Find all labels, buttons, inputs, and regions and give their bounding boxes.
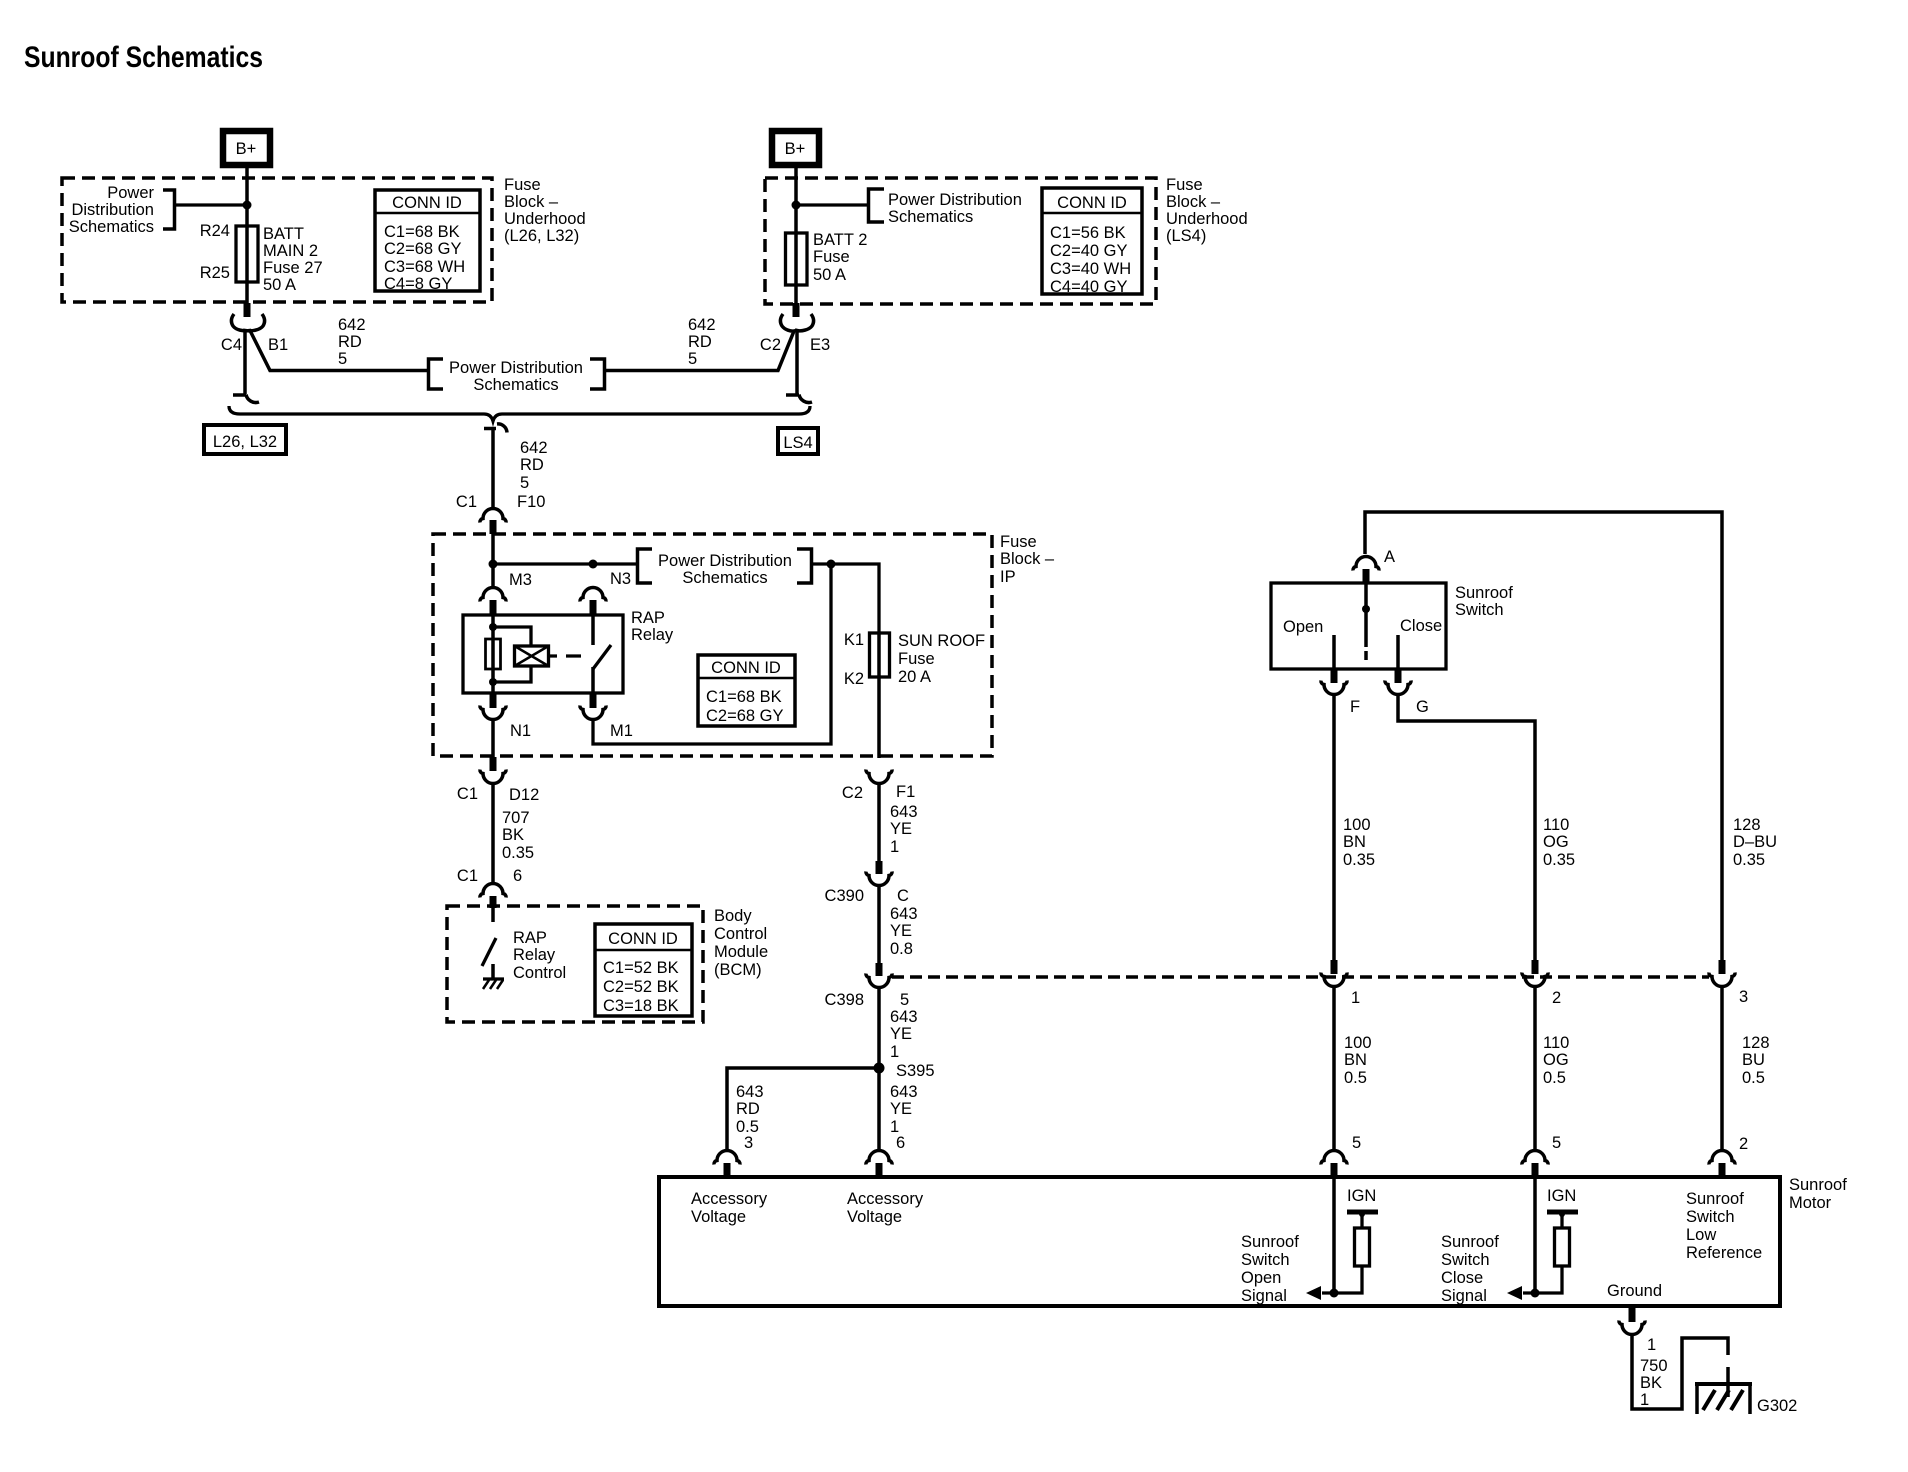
svg-text:RD: RD bbox=[520, 456, 544, 474]
svg-text:Close: Close bbox=[1441, 1269, 1483, 1287]
svg-text:1: 1 bbox=[1640, 1391, 1649, 1409]
svg-text:Switch: Switch bbox=[1686, 1208, 1735, 1226]
connector C1/D12 male stub bbox=[490, 757, 497, 771]
svg-text:6: 6 bbox=[513, 867, 522, 885]
svg-text:C3=18 BK: C3=18 BK bbox=[603, 997, 679, 1015]
svg-text:Accessory: Accessory bbox=[847, 1190, 924, 1208]
svg-text:M3: M3 bbox=[509, 571, 532, 589]
C398 harness dashed line bbox=[892, 975, 1709, 979]
svg-text:110: 110 bbox=[1543, 816, 1569, 834]
svg-text:643: 643 bbox=[736, 1083, 764, 1101]
svg-text:E3: E3 bbox=[810, 336, 830, 354]
label 128 D-BU 0.35 bbox=[1733, 816, 1777, 869]
svg-text:YE: YE bbox=[890, 820, 912, 838]
label SUN ROOF Fuse 20 A bbox=[898, 632, 985, 686]
svg-text:643: 643 bbox=[890, 905, 918, 923]
relay resistor bbox=[486, 639, 501, 669]
svg-text:BN: BN bbox=[1344, 1051, 1367, 1069]
junction open signal bbox=[1330, 1289, 1339, 1298]
label BATT 2 Fuse 50 A bbox=[813, 231, 867, 284]
svg-text:CONN ID: CONN ID bbox=[711, 659, 781, 677]
svg-text:Motor: Motor bbox=[1789, 1194, 1832, 1212]
sunroof switch box bbox=[1271, 583, 1446, 669]
svg-text:Fuse 27: Fuse 27 bbox=[263, 259, 323, 277]
svg-text:Sunroof: Sunroof bbox=[1441, 1233, 1499, 1251]
svg-text:YE: YE bbox=[890, 1025, 912, 1043]
svg-text:N1: N1 bbox=[510, 722, 531, 740]
svg-text:YE: YE bbox=[890, 1100, 912, 1118]
svg-text:(BCM): (BCM) bbox=[714, 961, 762, 979]
label Accessory Voltage (pin 3) bbox=[691, 1190, 768, 1226]
svg-text:Low: Low bbox=[1686, 1226, 1716, 1244]
connector C4/B1 double terminal with wire C4 down bbox=[245, 314, 265, 394]
connector C1/6 terminal bbox=[480, 884, 506, 898]
wire start below brace bbox=[484, 424, 507, 433]
connector C1/F10 terminal bbox=[480, 509, 506, 523]
svg-text:CONN ID: CONN ID bbox=[608, 930, 678, 948]
BCM switch to ground wire bbox=[491, 964, 495, 978]
relay actuator dashed link bbox=[549, 654, 582, 657]
label Fuse Block - Underhood (LS4) bbox=[1166, 176, 1248, 245]
label 750 BK 1 bbox=[1640, 1357, 1668, 1409]
connector A terminal bbox=[1353, 557, 1379, 571]
off-page reference bracket (left) bbox=[163, 190, 175, 229]
svg-text:K2: K2 bbox=[844, 670, 864, 688]
svg-text:3: 3 bbox=[744, 1134, 753, 1152]
svg-text:LS4: LS4 bbox=[783, 434, 812, 452]
svg-text:C2: C2 bbox=[842, 784, 863, 802]
label Power Distribution Schematics (right) bbox=[888, 191, 1022, 226]
svg-text:Distribution: Distribution bbox=[71, 201, 154, 219]
svg-text:1: 1 bbox=[890, 1043, 899, 1061]
junction N3 feed bbox=[589, 560, 598, 569]
svg-text:Power: Power bbox=[107, 184, 154, 202]
svg-text:Block –: Block – bbox=[504, 193, 559, 211]
label Fuse Block - IP bbox=[1000, 533, 1055, 586]
svg-text:Underhood: Underhood bbox=[1166, 210, 1248, 228]
wire 643 YE to C390 bbox=[877, 783, 881, 862]
svg-text:C4=40 GY: C4=40 GY bbox=[1050, 278, 1128, 296]
wire bracket to B+ feed bbox=[175, 203, 248, 206]
connector pin 3 male stub bbox=[1719, 960, 1726, 974]
svg-text:RAP: RAP bbox=[631, 609, 665, 627]
svg-text:Ground: Ground bbox=[1607, 1282, 1662, 1300]
wire M1 return to fuse feed bbox=[593, 564, 831, 744]
connector C2/F1 terminal bbox=[866, 770, 892, 784]
svg-text:5: 5 bbox=[1352, 1134, 1361, 1152]
svg-text:N3: N3 bbox=[610, 570, 631, 588]
label 110 OG 0.5 bbox=[1543, 1034, 1569, 1087]
connector A male stub bbox=[1363, 569, 1370, 583]
svg-text:0.5: 0.5 bbox=[1543, 1069, 1566, 1087]
svg-text:0.5: 0.5 bbox=[1742, 1069, 1765, 1087]
svg-text:(LS4): (LS4) bbox=[1166, 227, 1206, 245]
svg-text:B+: B+ bbox=[236, 140, 257, 158]
svg-text:C1=52 BK: C1=52 BK bbox=[603, 959, 679, 977]
connector N1 male stub bbox=[490, 694, 497, 708]
label 110 OG 0.35 bbox=[1543, 816, 1575, 869]
svg-text:Fuse: Fuse bbox=[504, 176, 541, 194]
BCM RAP relay control switch wire bbox=[491, 906, 495, 922]
connector C398 terminal bbox=[866, 974, 892, 988]
label RAP Relay Control bbox=[513, 929, 566, 982]
connector motor pin 6 male stub bbox=[876, 1163, 883, 1177]
label Power Distribution Schematics (left) bbox=[69, 184, 155, 236]
svg-text:F: F bbox=[1350, 698, 1360, 716]
svg-text:BN: BN bbox=[1343, 833, 1366, 851]
svg-text:750: 750 bbox=[1640, 1357, 1668, 1375]
svg-text:IGN: IGN bbox=[1547, 1187, 1576, 1205]
wire sunroof fuse to C2/F1 bbox=[877, 677, 881, 758]
connector F male stub bbox=[1331, 670, 1338, 683]
svg-text:Block –: Block – bbox=[1166, 193, 1221, 211]
svg-text:Sunroof: Sunroof bbox=[1686, 1190, 1744, 1208]
svg-text:0.35: 0.35 bbox=[1543, 851, 1575, 869]
arrow close signal bbox=[1507, 1286, 1522, 1300]
svg-text:C1=68 BK: C1=68 BK bbox=[706, 688, 782, 706]
junction M1 return bbox=[827, 560, 836, 569]
CONN ID table (right fuse block) bbox=[1042, 188, 1142, 296]
wire G to pin 2 bbox=[1398, 694, 1535, 961]
svg-text:Switch: Switch bbox=[1455, 601, 1504, 619]
connector G terminal bbox=[1385, 681, 1411, 695]
svg-text:C2=40 GY: C2=40 GY bbox=[1050, 242, 1128, 260]
resistor pull-up (open) bbox=[1360, 1212, 1363, 1228]
svg-text:IGN: IGN bbox=[1347, 1187, 1376, 1205]
connector motor pin 1 terminal bbox=[1619, 1321, 1645, 1335]
svg-text:R25: R25 bbox=[200, 264, 230, 282]
svg-text:F10: F10 bbox=[517, 493, 545, 511]
svg-text:L26, L32: L26, L32 bbox=[213, 433, 277, 451]
connector pin 1 terminal bbox=[1321, 973, 1347, 987]
wire bracket to sunroof fuse bbox=[812, 564, 880, 633]
svg-text:1: 1 bbox=[1647, 1336, 1656, 1354]
svg-text:707: 707 bbox=[502, 809, 530, 827]
svg-text:642: 642 bbox=[520, 439, 548, 457]
svg-text:642: 642 bbox=[688, 316, 716, 334]
wire end E3 bbox=[786, 395, 812, 403]
label 100 BN 0.35 bbox=[1343, 816, 1375, 869]
arrow open signal bbox=[1306, 1286, 1321, 1300]
svg-text:Fuse: Fuse bbox=[898, 650, 935, 668]
net box LS4 bbox=[778, 428, 818, 454]
net box L26, L32 bbox=[204, 425, 286, 454]
svg-text:Sunroof: Sunroof bbox=[1241, 1233, 1299, 1251]
label 100 BN 0.5 bbox=[1344, 1034, 1372, 1087]
wire ground 750 BK to G302 bbox=[1632, 1334, 1728, 1409]
connector M1 male stub bbox=[590, 694, 597, 708]
connector C1/6 male stub bbox=[490, 896, 497, 908]
switch common wire bbox=[1364, 583, 1368, 647]
svg-text:0.35: 0.35 bbox=[1733, 851, 1765, 869]
label 643 YE 1 bbox=[890, 803, 918, 856]
svg-text:20 A: 20 A bbox=[898, 668, 931, 686]
wire B+ to BATT 2 fuse bbox=[794, 168, 798, 317]
svg-text:5: 5 bbox=[688, 350, 697, 368]
svg-text:Relay: Relay bbox=[631, 626, 674, 644]
svg-text:C1: C1 bbox=[457, 867, 478, 885]
svg-text:B+: B+ bbox=[785, 140, 806, 158]
connector M1 terminal bbox=[580, 706, 606, 720]
connector pin 2 terminal bbox=[1522, 973, 1548, 987]
svg-text:BK: BK bbox=[502, 826, 524, 844]
svg-text:C3=68 WH: C3=68 WH bbox=[384, 258, 465, 276]
off-page reference bracket pair Power Distribution Schematics (IP) bbox=[638, 549, 653, 583]
svg-text:Open: Open bbox=[1241, 1269, 1281, 1287]
svg-text:Sunroof Schematics: Sunroof Schematics bbox=[24, 41, 263, 74]
svg-text:Power Distribution: Power Distribution bbox=[449, 359, 583, 377]
label Sunroof Switch bbox=[1455, 584, 1513, 619]
svg-text:K1: K1 bbox=[844, 631, 864, 649]
svg-text:Sunroof: Sunroof bbox=[1789, 1176, 1847, 1194]
connector F terminal bbox=[1321, 681, 1347, 695]
wire S395 to pin 3 bbox=[727, 1068, 879, 1150]
motor close signal wire bbox=[1533, 1177, 1537, 1293]
CONN ID table (BCM) bbox=[595, 924, 692, 1016]
wire 707 BK to BCM bbox=[491, 783, 495, 883]
svg-text:C2: C2 bbox=[760, 336, 781, 354]
label Fuse Block - Underhood (L26, L32) bbox=[504, 176, 586, 245]
wire sunroof switch feed (top run) bbox=[1365, 512, 1722, 960]
junction coil bottom bbox=[489, 678, 497, 686]
svg-text:Reference: Reference bbox=[1686, 1244, 1762, 1262]
fuse SUN ROOF 20A bbox=[870, 633, 890, 677]
RAP relay box bbox=[463, 615, 623, 693]
svg-text:Switch: Switch bbox=[1241, 1251, 1290, 1269]
svg-text:C1: C1 bbox=[457, 785, 478, 803]
resistor pull-up (close) bbox=[1560, 1212, 1563, 1228]
switch open contact bbox=[1332, 635, 1336, 669]
svg-text:C1: C1 bbox=[456, 493, 477, 511]
CONN ID table (IP fuse block) bbox=[698, 655, 795, 726]
label 642 RD 5 (right) bbox=[688, 316, 716, 368]
svg-text:BK: BK bbox=[1640, 1374, 1662, 1392]
connector motor pin 5 male stub (left) bbox=[1331, 1163, 1338, 1177]
connector motor pin 3 terminal bbox=[714, 1151, 740, 1165]
relay switch contact wire bottom bbox=[591, 667, 595, 693]
svg-text:643: 643 bbox=[890, 803, 918, 821]
connector motor pin 2 terminal bbox=[1709, 1151, 1735, 1165]
switch actuator dash bbox=[1364, 651, 1368, 660]
junction close signal bbox=[1531, 1289, 1540, 1298]
svg-text:642: 642 bbox=[338, 316, 366, 334]
svg-text:Fuse: Fuse bbox=[1000, 533, 1037, 551]
svg-text:D12: D12 bbox=[509, 786, 539, 804]
wire B+ to fuse 27 bbox=[245, 168, 249, 317]
svg-text:BATT: BATT bbox=[263, 225, 304, 243]
svg-text:5: 5 bbox=[900, 991, 909, 1009]
connector motor pin 5 terminal (right) bbox=[1522, 1151, 1548, 1165]
CONN ID table (left fuse block) bbox=[375, 190, 480, 293]
svg-text:Fuse: Fuse bbox=[1166, 176, 1203, 194]
svg-text:5: 5 bbox=[520, 474, 529, 492]
relay coil branch wire bbox=[491, 615, 495, 693]
svg-text:OG: OG bbox=[1543, 1051, 1569, 1069]
svg-text:CONN ID: CONN ID bbox=[392, 194, 462, 212]
svg-text:RD: RD bbox=[688, 333, 712, 351]
wire end C4 bbox=[233, 395, 259, 403]
junction switch common bbox=[1362, 605, 1370, 613]
label 128 BU 0.5 bbox=[1742, 1034, 1770, 1087]
svg-text:G302: G302 bbox=[1757, 1397, 1797, 1415]
motor open signal wire bbox=[1332, 1177, 1336, 1293]
connector C4/B1 male stub bbox=[244, 303, 251, 317]
relay switch contact wire top bbox=[591, 615, 595, 645]
label BATT MAIN 2 Fuse 27 50 A bbox=[263, 225, 323, 294]
connector pin 2 male stub bbox=[1532, 960, 1539, 974]
svg-text:Accessory: Accessory bbox=[691, 1190, 768, 1208]
connector C2/E3 male stub bbox=[793, 303, 800, 317]
junction coil top bbox=[489, 623, 497, 631]
svg-text:643: 643 bbox=[890, 1008, 918, 1026]
BCM internal ground bbox=[483, 979, 504, 989]
svg-text:Schematics: Schematics bbox=[888, 208, 973, 226]
BCM switch blade bbox=[482, 938, 496, 966]
wire C398 to S395 bbox=[877, 987, 881, 1150]
wire pin 3 to motor pin 2 bbox=[1720, 986, 1724, 1150]
svg-text:Power Distribution: Power Distribution bbox=[888, 191, 1022, 209]
svg-text:Close: Close bbox=[1400, 617, 1442, 635]
wire bus to bracket bbox=[493, 562, 637, 565]
svg-text:CONN ID: CONN ID bbox=[1057, 194, 1127, 212]
connector motor pin 5 terminal (left) bbox=[1321, 1151, 1347, 1165]
sunroof motor box bbox=[659, 1177, 1780, 1306]
fuse BATT 2 50A bbox=[786, 233, 808, 285]
connector motor pin 6 terminal bbox=[866, 1151, 892, 1165]
label Sunroof Motor bbox=[1789, 1176, 1847, 1212]
label Body Control Module (BCM) bbox=[714, 907, 768, 979]
svg-text:Power Distribution: Power Distribution bbox=[658, 552, 792, 570]
connector G male stub bbox=[1395, 670, 1402, 683]
switch close contact bbox=[1396, 635, 1400, 669]
svg-text:YE: YE bbox=[890, 922, 912, 940]
svg-text:Switch: Switch bbox=[1441, 1251, 1490, 1269]
power symbol B+ (right) bbox=[772, 131, 819, 165]
relay switch blade bbox=[593, 645, 611, 669]
svg-text:128: 128 bbox=[1733, 816, 1761, 834]
fuse block underhood L26,L32 dashed box bbox=[62, 178, 492, 302]
svg-text:C2=68 GY: C2=68 GY bbox=[706, 707, 784, 725]
svg-text:0.5: 0.5 bbox=[1344, 1069, 1367, 1087]
svg-text:50 A: 50 A bbox=[263, 276, 296, 294]
label Sunroof Switch Open Signal bbox=[1241, 1233, 1299, 1305]
connector C390 male stub bbox=[876, 861, 883, 874]
svg-text:Control: Control bbox=[714, 925, 767, 943]
svg-text:Relay: Relay bbox=[513, 946, 556, 964]
ground G302 bbox=[1695, 1384, 1752, 1414]
relay coil symbol bbox=[515, 646, 549, 666]
svg-text:110: 110 bbox=[1543, 1034, 1569, 1052]
svg-text:Voltage: Voltage bbox=[847, 1208, 902, 1226]
wire junction to bracket (right) bbox=[796, 203, 868, 206]
svg-text:C4=8 GY: C4=8 GY bbox=[384, 275, 452, 293]
connector C1/D12 terminal bbox=[480, 770, 506, 784]
svg-text:6: 6 bbox=[896, 1134, 905, 1152]
label 643 YE 1 bbox=[890, 1083, 918, 1136]
label 707 BK 0.35 bbox=[502, 809, 534, 862]
label 643 YE 1 bbox=[890, 1008, 918, 1061]
svg-text:C390: C390 bbox=[825, 887, 864, 905]
fuse BATT MAIN 2 Fuse 27 50A bbox=[236, 226, 258, 282]
connector C398 male stub bbox=[876, 963, 883, 976]
wire F10 to M3 bbox=[491, 534, 495, 586]
wire F to pin 1 bbox=[1332, 694, 1336, 961]
svg-text:5: 5 bbox=[338, 350, 347, 368]
svg-text:Open: Open bbox=[1283, 618, 1323, 636]
connector M3 terminal bbox=[480, 588, 506, 602]
fuse block underhood LS4 dashed box bbox=[765, 178, 1156, 304]
svg-text:F1: F1 bbox=[896, 783, 915, 801]
svg-text:Block –: Block – bbox=[1000, 550, 1055, 568]
svg-text:1: 1 bbox=[1351, 989, 1360, 1007]
svg-text:C1=56 BK: C1=56 BK bbox=[1050, 224, 1126, 242]
wire bracket to C2 bbox=[605, 314, 795, 371]
connector N3 terminal bbox=[580, 588, 606, 602]
svg-text:MAIN 2: MAIN 2 bbox=[263, 242, 318, 260]
label 642 RD 5 (center) bbox=[520, 439, 548, 492]
svg-text:RD: RD bbox=[338, 333, 362, 351]
wire N1 to C1/D12 bbox=[491, 719, 495, 757]
svg-text:Schematics: Schematics bbox=[69, 218, 154, 236]
connector pin 1 male stub bbox=[1331, 960, 1338, 974]
svg-text:Control: Control bbox=[513, 964, 566, 982]
IGN supply bar (open) bbox=[1347, 1210, 1378, 1215]
svg-text:Module: Module bbox=[714, 943, 768, 961]
svg-text:RAP: RAP bbox=[513, 929, 547, 947]
wire 643 YE to C398 bbox=[877, 885, 881, 964]
svg-text:BATT 2: BATT 2 bbox=[813, 231, 867, 249]
svg-text:Sunroof: Sunroof bbox=[1455, 584, 1513, 602]
svg-text:C2=68 GY: C2=68 GY bbox=[384, 240, 462, 258]
label Sunroof Switch Low Reference bbox=[1686, 1190, 1762, 1262]
svg-text:Schematics: Schematics bbox=[682, 569, 767, 587]
svg-text:0.35: 0.35 bbox=[502, 844, 534, 862]
svg-text:Underhood: Underhood bbox=[504, 210, 586, 228]
connector motor pin 1 male stub bbox=[1629, 1306, 1636, 1322]
off-page reference bracket (right) bbox=[869, 189, 885, 222]
svg-text:RD: RD bbox=[736, 1100, 760, 1118]
svg-text:0.35: 0.35 bbox=[1343, 851, 1375, 869]
svg-text:C398: C398 bbox=[825, 991, 864, 1009]
label 643 RD 0.5 bbox=[736, 1083, 764, 1136]
wire brace to C1/F10 bbox=[491, 429, 495, 508]
connector N3 male stub bbox=[590, 600, 597, 615]
wire B1 to reference bracket bbox=[231, 314, 428, 371]
svg-text:3: 3 bbox=[1739, 988, 1748, 1006]
junction M3 feed bbox=[489, 560, 498, 569]
label Sunroof Switch Close Signal bbox=[1441, 1233, 1499, 1305]
connector C390 terminal bbox=[866, 872, 892, 886]
connector pin 3 terminal bbox=[1709, 973, 1735, 987]
svg-text:Fuse: Fuse bbox=[813, 248, 850, 266]
IGN supply bar (close) bbox=[1547, 1210, 1578, 1215]
svg-text:BU: BU bbox=[1742, 1051, 1765, 1069]
connector motor pin 2 male stub bbox=[1719, 1163, 1726, 1177]
svg-text:A: A bbox=[1384, 548, 1395, 566]
svg-text:Signal: Signal bbox=[1441, 1287, 1487, 1305]
svg-text:643: 643 bbox=[890, 1083, 918, 1101]
junction (left B+ feed) bbox=[243, 201, 252, 210]
svg-text:Body: Body bbox=[714, 907, 752, 925]
BCM dashed box bbox=[447, 906, 703, 1022]
power symbol B+ (left) bbox=[223, 131, 270, 165]
svg-text:100: 100 bbox=[1343, 816, 1371, 834]
svg-text:OG: OG bbox=[1543, 833, 1569, 851]
fuse block IP dashed box bbox=[433, 534, 992, 756]
connector C2/E3 double terminal with wire E3 down bbox=[797, 314, 814, 394]
svg-text:Schematics: Schematics bbox=[473, 376, 558, 394]
svg-text:D–BU: D–BU bbox=[1733, 833, 1777, 851]
